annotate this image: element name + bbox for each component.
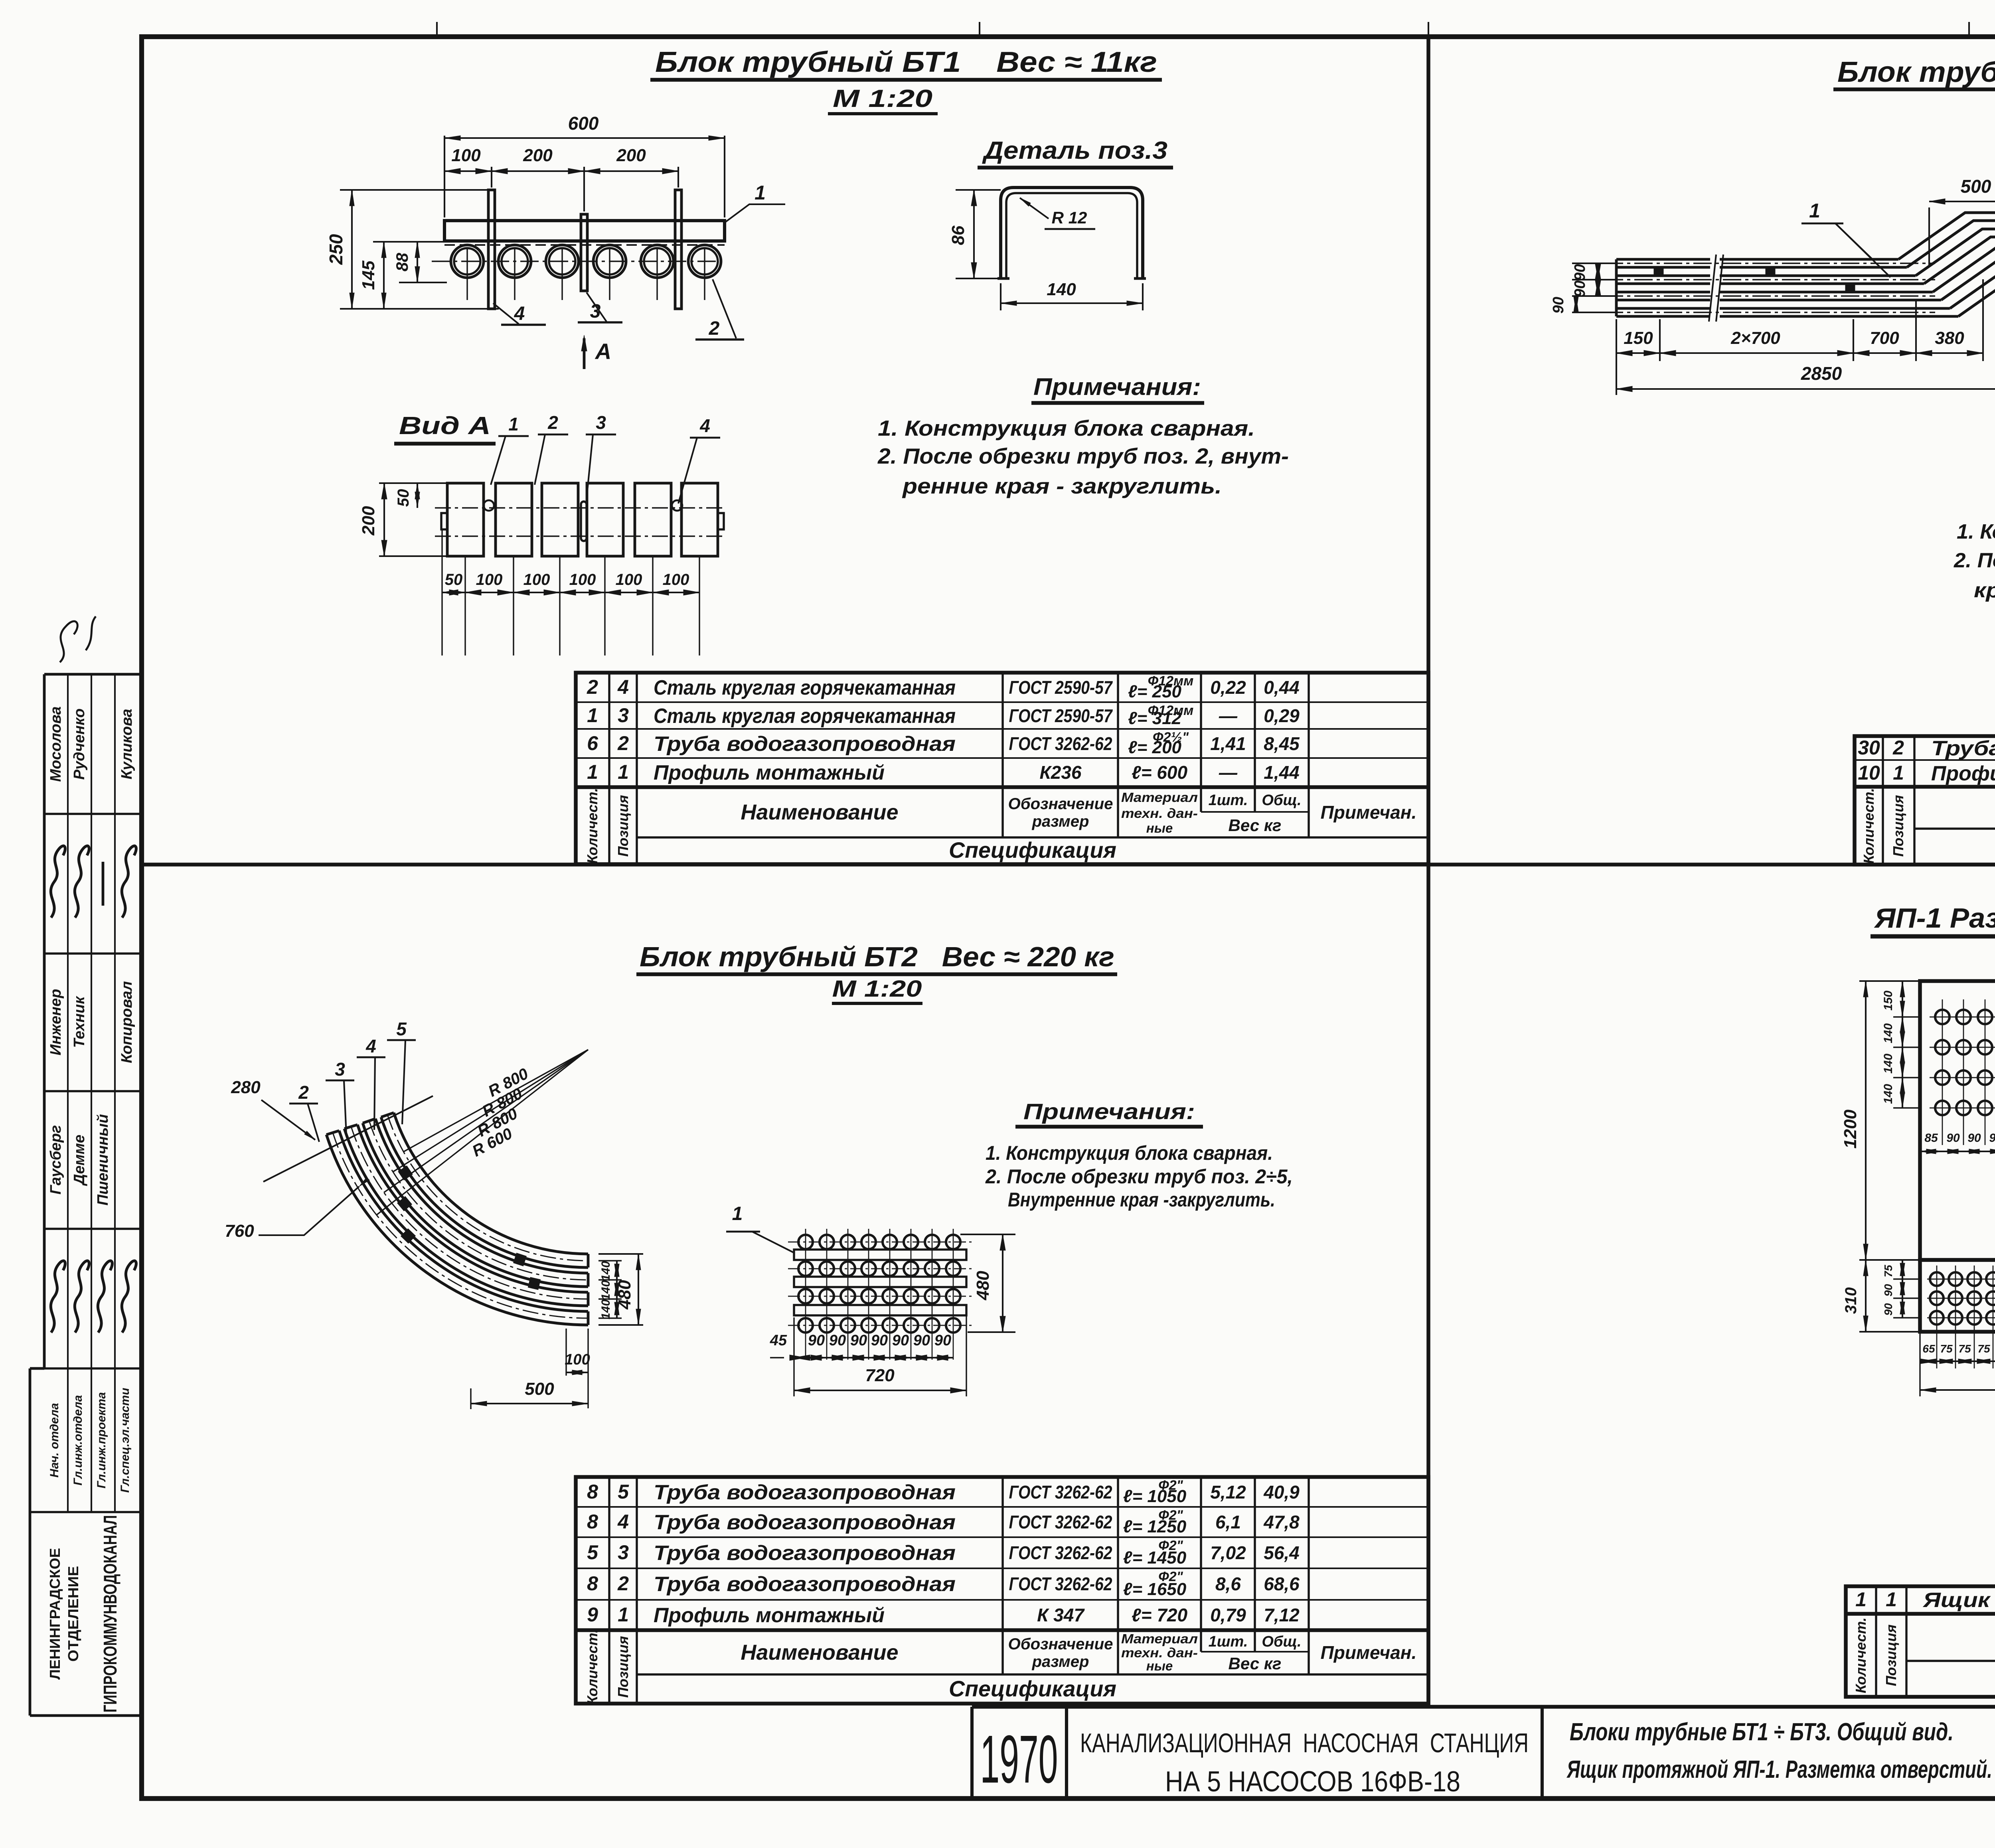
left dims 75 90 90 (днище) [1893, 1278, 1920, 1279]
svg-text:90: 90 [1967, 1131, 1981, 1145]
svg-text:техн. дан-: техн. дан- [1121, 806, 1198, 821]
svg-text:Количест.: Количест. [1861, 788, 1877, 864]
back wall hole grid 4x8 (32 отв) [1930, 1017, 1995, 1018]
title block top line [972, 1705, 1995, 1709]
stamp signatures row 2 [51, 1261, 65, 1333]
svg-text:Блоки трубные БТ1 ÷ БТ3. Общий: Блоки трубные БТ1 ÷ БТ3. Общий вид. [1570, 1718, 1954, 1746]
svg-text:88: 88 [393, 253, 411, 271]
svg-text:техн. дан-: техн. дан- [1121, 1645, 1198, 1660]
svg-text:Ящик протяжной ЯП1283: Ящик протяжной ЯП1283 [1922, 1589, 1995, 1612]
svg-text:ОТДЕЛЕНИЕ: ОТДЕЛЕНИЕ [65, 1566, 81, 1662]
svg-text:100: 100 [616, 571, 642, 588]
rod holes (Вид А) [484, 500, 494, 511]
svg-text:50: 50 [395, 489, 412, 507]
svg-text:ГОСТ 3262-62: ГОСТ 3262-62 [1009, 1542, 1112, 1563]
svg-text:90: 90 [829, 1332, 846, 1349]
svg-text:145: 145 [359, 261, 378, 290]
svg-text:3: 3 [596, 412, 606, 433]
bottom hole grid 3x10 (30 отв) [1927, 1279, 1995, 1280]
svg-text:68,6: 68,6 [1264, 1574, 1300, 1594]
svg-text:75: 75 [1882, 1265, 1894, 1277]
svg-text:1,41: 1,41 [1210, 733, 1246, 754]
svg-text:90: 90 [1572, 280, 1588, 297]
clamp marks БТ2 arcs [398, 1166, 413, 1180]
svg-text:100: 100 [476, 571, 503, 588]
svg-text:100: 100 [565, 1351, 590, 1368]
svg-text:1: 1 [1809, 199, 1820, 222]
svg-text:3: 3 [618, 704, 629, 727]
svg-text:100: 100 [523, 571, 550, 588]
svg-text:2. После обрезки труб поз. 2÷5: 2. После обрезки труб поз. 2÷5, [985, 1165, 1293, 1188]
svg-text:90: 90 [934, 1332, 951, 1349]
svg-text:1шт.: 1шт. [1209, 792, 1248, 809]
svg-text:ℓ= 1250: ℓ= 1250 [1123, 1517, 1187, 1536]
svg-text:Куликова: Куликова [119, 709, 135, 780]
svg-text:К 347: К 347 [1037, 1605, 1085, 1625]
svg-text:Гаусберг: Гаусберг [47, 1125, 64, 1194]
svg-text:56,4: 56,4 [1264, 1542, 1300, 1563]
tie plate поз.4 left [488, 190, 495, 309]
svg-text:Инженер: Инженер [47, 989, 64, 1056]
svg-text:ренние края - закруглить.: ренние края - закруглить. [902, 474, 1222, 498]
svg-text:2. После обрезки труб поз. 2,: 2. После обрезки труб поз. 2, внутренние [1954, 549, 1995, 572]
clamp marks БТ3 [1654, 268, 1663, 276]
fold tick marks on top frame [436, 22, 438, 38]
svg-text:Профиль монтажный: Профиль монтажный [654, 761, 885, 784]
svg-text:Наименование: Наименование [741, 1641, 898, 1664]
svg-text:200: 200 [359, 506, 378, 536]
dim 200 (Вид А) [379, 482, 447, 484]
svg-text:90: 90 [1550, 297, 1567, 314]
svg-text:40,9: 40,9 [1263, 1482, 1300, 1502]
svg-text:5,12: 5,12 [1210, 1482, 1246, 1502]
svg-text:1. Конструкция блока сварная.: 1. Конструкция блока сварная. [878, 416, 1255, 440]
svg-text:75: 75 [1940, 1343, 1953, 1355]
svg-text:ЯП-1 Разметка отверстий: ЯП-1 Разметка отверстий [1874, 902, 1995, 934]
svg-text:200: 200 [616, 146, 646, 165]
svg-text:90: 90 [1882, 1303, 1894, 1316]
curved pipe bands БТ2 (4 elbows) [381, 1117, 588, 1268]
svg-text:90: 90 [1572, 264, 1588, 281]
svg-text:Техник: Техник [71, 996, 88, 1048]
dim 86 (Деталь) [956, 189, 1001, 191]
bottom section днище ящика rectangle [1920, 1260, 1995, 1332]
svg-text:140: 140 [1882, 1023, 1895, 1043]
mounting profile bar поз.1 [444, 221, 725, 241]
svg-text:ℓ= 250: ℓ= 250 [1128, 682, 1182, 701]
label 4 with leader [493, 303, 519, 324]
dim 800 (ЯП-1) [1919, 1332, 1920, 1396]
svg-text:Гл.инж.отдела: Гл.инж.отдела [71, 1395, 85, 1486]
svg-text:Мосолова: Мосолова [47, 706, 64, 782]
svg-text:1: 1 [618, 761, 629, 783]
svg-text:ГОСТ 3262-62: ГОСТ 3262-62 [1009, 1574, 1112, 1594]
svg-text:700: 700 [1870, 328, 1899, 348]
svg-text:50: 50 [445, 571, 463, 588]
svg-text:Общ.: Общ. [1262, 1633, 1301, 1650]
left dims 150 140x3 (задняя стенка) [1893, 980, 1920, 981]
svg-text:Вид А: Вид А [399, 412, 491, 440]
dims 140x3 480 right ends (БТ2) [598, 1253, 643, 1255]
svg-text:8,6: 8,6 [1215, 1574, 1241, 1594]
svg-text:1200: 1200 [1841, 1110, 1860, 1149]
svg-text:ℓ= 1650: ℓ= 1650 [1123, 1579, 1187, 1599]
svg-text:5: 5 [396, 1019, 407, 1039]
svg-text:90: 90 [808, 1332, 825, 1349]
specification table ЯП-1 [1846, 1586, 1995, 1697]
svg-text:Спецификация: Спецификация [949, 1676, 1116, 1701]
svg-text:Количест.: Количест. [1853, 1617, 1869, 1693]
pipe centerline (БТ1 front) [432, 261, 718, 262]
svg-text:ℓ= 600: ℓ= 600 [1132, 762, 1188, 783]
svg-text:150: 150 [1882, 991, 1895, 1011]
dim 250 (БТ1 left) [340, 189, 492, 191]
pipe centerlines БТ3 [1605, 263, 1935, 264]
svg-text:9: 9 [587, 1603, 598, 1626]
svg-text:280: 280 [231, 1078, 261, 1097]
svg-text:Труба водогазопроводная: Труба водогазопроводная [654, 732, 956, 756]
svg-text:140: 140 [599, 1261, 612, 1281]
svg-text:140: 140 [1047, 280, 1076, 299]
svg-text:ℓ= 1050: ℓ= 1050 [1123, 1487, 1187, 1506]
svg-text:М 1:20: М 1:20 [832, 976, 922, 1002]
svg-text:—: — [1219, 705, 1238, 726]
full-width horizontal divider [142, 863, 1995, 867]
dim 720 (БТ2 end view) [794, 1390, 966, 1391]
svg-text:ГИПРОКОММУНВОДОКАНАЛ: ГИПРОКОММУНВОДОКАНАЛ [100, 1515, 120, 1713]
svg-text:140: 140 [599, 1299, 612, 1319]
svg-text:М 1:20: М 1:20 [833, 85, 932, 113]
svg-text:НА 5 НАСОСОВ 16ФВ-18: НА 5 НАСОСОВ 16ФВ-18 [1165, 1766, 1460, 1798]
svg-text:ГОСТ 3262-62: ГОСТ 3262-62 [1009, 733, 1112, 754]
svg-text:Количест.: Количест. [584, 788, 600, 864]
svg-text:1: 1 [732, 1203, 743, 1224]
svg-text:8: 8 [587, 1572, 598, 1595]
back wall rectangle задняя стенка [1920, 981, 1995, 1260]
svg-text:3: 3 [590, 301, 601, 322]
svg-text:1,44: 1,44 [1264, 762, 1300, 783]
svg-text:Ящик протяжной ЯП-1. Разметка: Ящик протяжной ЯП-1. Разметка отверстий. [1566, 1756, 1992, 1783]
svg-text:Материал: Материал [1121, 790, 1198, 805]
svg-text:3: 3 [618, 1541, 629, 1564]
dash centerlines (Вид А) [435, 507, 724, 508]
svg-text:10: 10 [1858, 762, 1880, 784]
svg-text:1: 1 [1886, 1588, 1897, 1611]
bottom dims 150 2x700 700 380 (БТ3) [1659, 319, 1661, 361]
svg-text:Примечан.: Примечан. [1321, 802, 1417, 823]
svg-text:Гл.спец.эл.части: Гл.спец.эл.части [119, 1388, 132, 1493]
svg-text:Рудченко: Рудченко [71, 709, 88, 780]
leader 1 (БТ1) [725, 204, 785, 223]
svg-text:Блок трубный БТ2 Вес ≈ 220 к: Блок трубный БТ2 Вес ≈ 220 кг [640, 941, 1114, 972]
svg-text:47,8: 47,8 [1263, 1512, 1300, 1532]
specification table БТ2 [576, 1477, 1428, 1704]
svg-text:100: 100 [569, 571, 596, 588]
svg-text:480: 480 [615, 1280, 634, 1310]
svg-text:размер: размер [1032, 1653, 1089, 1670]
svg-text:140: 140 [599, 1280, 612, 1300]
central vertical divider [1426, 37, 1430, 1707]
svg-text:Примечания:: Примечания: [1033, 373, 1201, 400]
svg-text:4: 4 [365, 1036, 376, 1056]
bottom dims 45 90x7 (БТ2 end view) [793, 1317, 794, 1396]
svg-text:ЛЕНИНГРАДСКОЕ: ЛЕНИНГРАДСКОЕ [47, 1548, 63, 1680]
end view БТ2 pipe circles 4x8 [788, 1242, 974, 1243]
svg-text:3: 3 [335, 1059, 345, 1080]
dim 1200 (ЯП-1) [1859, 980, 1920, 982]
svg-text:90: 90 [871, 1332, 888, 1349]
svg-text:Позиция: Позиция [1890, 795, 1906, 857]
dim 100-200-200 (БТ1) [491, 167, 492, 188]
svg-text:86: 86 [948, 225, 968, 245]
svg-text:Общ.: Общ. [1262, 792, 1301, 809]
svg-text:720: 720 [865, 1366, 895, 1385]
break marks БТ3 [1709, 255, 1716, 322]
svg-text:4: 4 [699, 415, 710, 436]
svg-text:90: 90 [892, 1332, 909, 1349]
svg-text:Труба водогазопроводная: Труба водогазопроводная [654, 1511, 956, 1534]
handwriting above stamp [60, 616, 96, 662]
svg-text:Копировал: Копировал [119, 981, 135, 1063]
svg-text:ℓ= 312: ℓ= 312 [1128, 709, 1182, 728]
svg-text:Вес кг: Вес кг [1229, 816, 1282, 835]
svg-text:75: 75 [1958, 1343, 1971, 1355]
dim 100 (БТ2) [565, 1329, 567, 1376]
end chord line БТ2 [263, 1096, 433, 1182]
svg-text:8: 8 [587, 1481, 598, 1503]
svg-text:1: 1 [1855, 1588, 1867, 1611]
svg-text:2850: 2850 [1801, 363, 1842, 384]
dim 145 (БТ1 left) [373, 241, 444, 243]
stamp signatures row 1 [51, 846, 65, 918]
svg-text:ГОСТ 2590-57: ГОСТ 2590-57 [1009, 677, 1113, 698]
svg-text:65: 65 [1922, 1343, 1935, 1355]
svg-text:Материал: Материал [1121, 1631, 1198, 1646]
svg-text:К236: К236 [1039, 762, 1081, 783]
svg-text:Блок трубный БТ1 Вес ≈ 11кг: Блок трубный БТ1 Вес ≈ 11кг [655, 46, 1157, 78]
pipes поз.2 front view (6 circles) [451, 245, 484, 278]
bottom dims 50 100x5 (Вид А) [464, 556, 466, 655]
svg-text:1шт.: 1шт. [1209, 1633, 1248, 1650]
svg-text:1: 1 [755, 182, 766, 204]
pipe rectangles bottom view (6) [447, 483, 484, 556]
svg-text:100: 100 [451, 146, 481, 165]
svg-text:Позиция: Позиция [1883, 1625, 1899, 1686]
label 3 with leader [587, 292, 606, 322]
stamp band lines [67, 674, 69, 1512]
svg-text:2×700: 2×700 [1730, 328, 1780, 348]
pipe bundle БТ3 bend and right ends [1898, 213, 1995, 259]
svg-text:5: 5 [587, 1541, 598, 1564]
svg-text:1: 1 [508, 414, 519, 434]
svg-text:ℓ= 720: ℓ= 720 [1132, 1605, 1188, 1625]
svg-text:0,29: 0,29 [1264, 705, 1300, 726]
svg-text:КАНАЛИЗАЦИОННАЯ НАСОСНАЯ СТА: КАНАЛИЗАЦИОННАЯ НАСОСНАЯ СТАНЦИЯ [1080, 1728, 1529, 1758]
svg-text:30: 30 [1858, 736, 1880, 759]
svg-text:размер: размер [1032, 813, 1089, 830]
dash mark band 3 [102, 862, 105, 906]
specification table БТ1 [576, 673, 1428, 864]
svg-text:90: 90 [850, 1332, 867, 1349]
svg-text:7,12: 7,12 [1264, 1605, 1300, 1625]
svg-text:Примечания:: Примечания: [1023, 1099, 1195, 1124]
svg-text:Труба водогазопроводная: Труба водогазопроводная [654, 1542, 956, 1565]
stamp outer border [43, 674, 46, 1368]
svg-text:Позиция: Позиция [615, 795, 631, 857]
svg-text:Профиль монтажный: Профиль монтажный [654, 1604, 885, 1627]
svg-text:R 12: R 12 [1052, 208, 1087, 227]
svg-text:Наименование: Наименование [741, 800, 898, 824]
svg-text:7,02: 7,02 [1210, 1542, 1246, 1563]
svg-text:Нач. отдела: Нач. отдела [48, 1403, 61, 1478]
dims 90 90 left (БТ3) [1572, 263, 1616, 264]
svg-text:1: 1 [1893, 762, 1904, 784]
svg-text:2: 2 [709, 318, 720, 339]
svg-text:Профиль монтажный: Профиль монтажный [1931, 762, 1995, 785]
svg-text:760: 760 [225, 1221, 254, 1241]
specification table БТ3 [1855, 736, 1995, 865]
svg-text:2: 2 [617, 1572, 629, 1595]
svg-text:Примечан.: Примечан. [1321, 1642, 1417, 1663]
svg-text:480: 480 [973, 1271, 993, 1301]
svg-text:0,22: 0,22 [1210, 677, 1246, 698]
label 2 with leader [713, 279, 736, 338]
svg-text:Блок трубный БТ3 Вес ≈ 430кг: Блок трубный БТ3 Вес ≈ 430кг [1837, 56, 1995, 88]
svg-text:Внутренние края -закруглить.: Внутренние края -закруглить. [1008, 1189, 1275, 1211]
svg-text:—: — [1219, 762, 1238, 783]
svg-text:140: 140 [1882, 1084, 1895, 1104]
svg-text:75: 75 [1977, 1343, 1990, 1355]
stamp horizontal separators [44, 813, 140, 815]
label R12 with arrow [1020, 198, 1049, 219]
svg-text:85: 85 [1924, 1131, 1938, 1145]
svg-text:Труба водогазопроводная: Труба водогазопроводная [654, 1573, 956, 1596]
dim 480 (БТ2 end view) [960, 1234, 1015, 1235]
svg-text:500: 500 [525, 1379, 554, 1399]
svg-text:90: 90 [1946, 1131, 1960, 1145]
left end cap БТ3 [1615, 259, 1618, 316]
svg-text:Труба водогазопроводная: Труба водогазопроводная [654, 1481, 956, 1504]
pipe bundle БТ3 straight pipes (4) [1616, 258, 1710, 261]
dim 140 (Деталь) [1000, 283, 1001, 310]
svg-text:200: 200 [523, 146, 553, 165]
svg-text:Гл.инж.проекта: Гл.инж.проекта [95, 1392, 108, 1488]
svg-text:Пшеничный: Пшеничный [95, 1114, 111, 1205]
svg-text:0,79: 0,79 [1210, 1605, 1246, 1625]
svg-text:2: 2 [298, 1082, 309, 1103]
svg-text:Вес кг: Вес кг [1229, 1654, 1282, 1673]
dim 500 (БТ3) [1928, 207, 1930, 265]
svg-text:1. Конструкция блока сварная: 1. Конструкция блока сварная [1957, 520, 1995, 543]
svg-text:4: 4 [617, 676, 629, 698]
svg-text:6,1: 6,1 [1215, 1512, 1241, 1532]
svg-text:Обозначение: Обозначение [1008, 1635, 1113, 1653]
channel profile U-shape поз.3 [1001, 188, 1143, 278]
svg-text:90: 90 [913, 1332, 930, 1349]
svg-text:8: 8 [587, 1510, 598, 1533]
svg-text:2. После обрезки труб поз. 2,: 2. После обрезки труб поз. 2, внут- [877, 444, 1289, 468]
svg-text:45: 45 [770, 1332, 787, 1349]
svg-text:500: 500 [1961, 176, 1991, 197]
svg-text:5: 5 [618, 1481, 629, 1503]
svg-text:Сталь круглая горячекатанная: Сталь круглая горячекатанная [654, 676, 956, 699]
svg-text:1: 1 [587, 704, 598, 727]
svg-text:Количест.: Количест. [584, 1629, 600, 1705]
dim 88 (БТ1 left) [399, 282, 447, 283]
svg-text:Демме: Демме [71, 1135, 88, 1186]
svg-text:Сталь круглая горячекатанная: Сталь круглая горячекатанная [654, 705, 956, 728]
svg-text:90: 90 [1989, 1131, 1995, 1145]
svg-text:ГОСТ 3262-62: ГОСТ 3262-62 [1009, 1482, 1112, 1502]
title block verticals [970, 1707, 974, 1799]
tie rod ends and middle rod (Вид А) [441, 513, 447, 529]
svg-text:1: 1 [618, 1603, 629, 1626]
svg-text:А: А [595, 339, 611, 364]
svg-text:1. Конструкция блока сварная.: 1. Конструкция блока сварная. [986, 1142, 1273, 1164]
svg-text:100: 100 [663, 571, 689, 588]
svg-text:ные: ные [1146, 821, 1173, 835]
svg-text:250: 250 [326, 234, 346, 265]
svg-text:310: 310 [1842, 1287, 1860, 1314]
svg-text:ℓ= 200: ℓ= 200 [1128, 738, 1182, 757]
svg-text:Деталь поз.3: Деталь поз.3 [982, 137, 1167, 164]
dim 500 (БТ2) [470, 1388, 471, 1409]
end view БТ2 profile bars [794, 1250, 966, 1260]
tie plate поз.2 right [675, 190, 681, 309]
radius leader lines R800 (БТ2) [403, 1050, 588, 1152]
dim 2850 (БТ3) [1616, 388, 1995, 390]
svg-text:150: 150 [1624, 328, 1653, 348]
svg-text:Спецификация: Спецификация [949, 837, 1116, 863]
svg-text:4: 4 [617, 1510, 629, 1533]
svg-text:1970: 1970 [980, 1722, 1058, 1797]
section arrow А [583, 338, 586, 369]
svg-text:Труба водогазопроводная: Труба водогазопроводная [1931, 737, 1995, 760]
svg-text:ные: ные [1146, 1658, 1173, 1673]
svg-text:8,45: 8,45 [1264, 733, 1300, 754]
svg-text:2: 2 [587, 676, 598, 698]
svg-text:ℓ= 1450: ℓ= 1450 [1123, 1548, 1187, 1568]
svg-text:140: 140 [1882, 1054, 1895, 1074]
tie plate поз.3 middle [581, 214, 587, 291]
svg-text:4: 4 [514, 303, 525, 324]
dim 600 (БТ1 top) [444, 136, 445, 217]
svg-text:Обозначение: Обозначение [1008, 795, 1113, 813]
svg-text:90: 90 [1882, 1284, 1894, 1297]
svg-text:380: 380 [1935, 328, 1964, 348]
dim 310 (ЯП-1) [1859, 1331, 1920, 1333]
svg-text:0,44: 0,44 [1264, 677, 1300, 698]
svg-text:края - закруглить.: края - закруглить. [1974, 579, 1995, 602]
svg-text:2: 2 [617, 732, 629, 754]
svg-text:2: 2 [1892, 736, 1904, 759]
svg-text:ГОСТ 2590-57: ГОСТ 2590-57 [1009, 705, 1113, 726]
svg-text:6: 6 [587, 732, 598, 754]
svg-text:2: 2 [547, 412, 558, 433]
svg-text:600: 600 [568, 113, 599, 134]
svg-text:Позиция: Позиция [615, 1636, 631, 1698]
svg-text:ГОСТ 3262-62: ГОСТ 3262-62 [1009, 1512, 1112, 1532]
dim 50 (Вид А) [417, 483, 418, 508]
svg-text:1: 1 [587, 761, 598, 783]
